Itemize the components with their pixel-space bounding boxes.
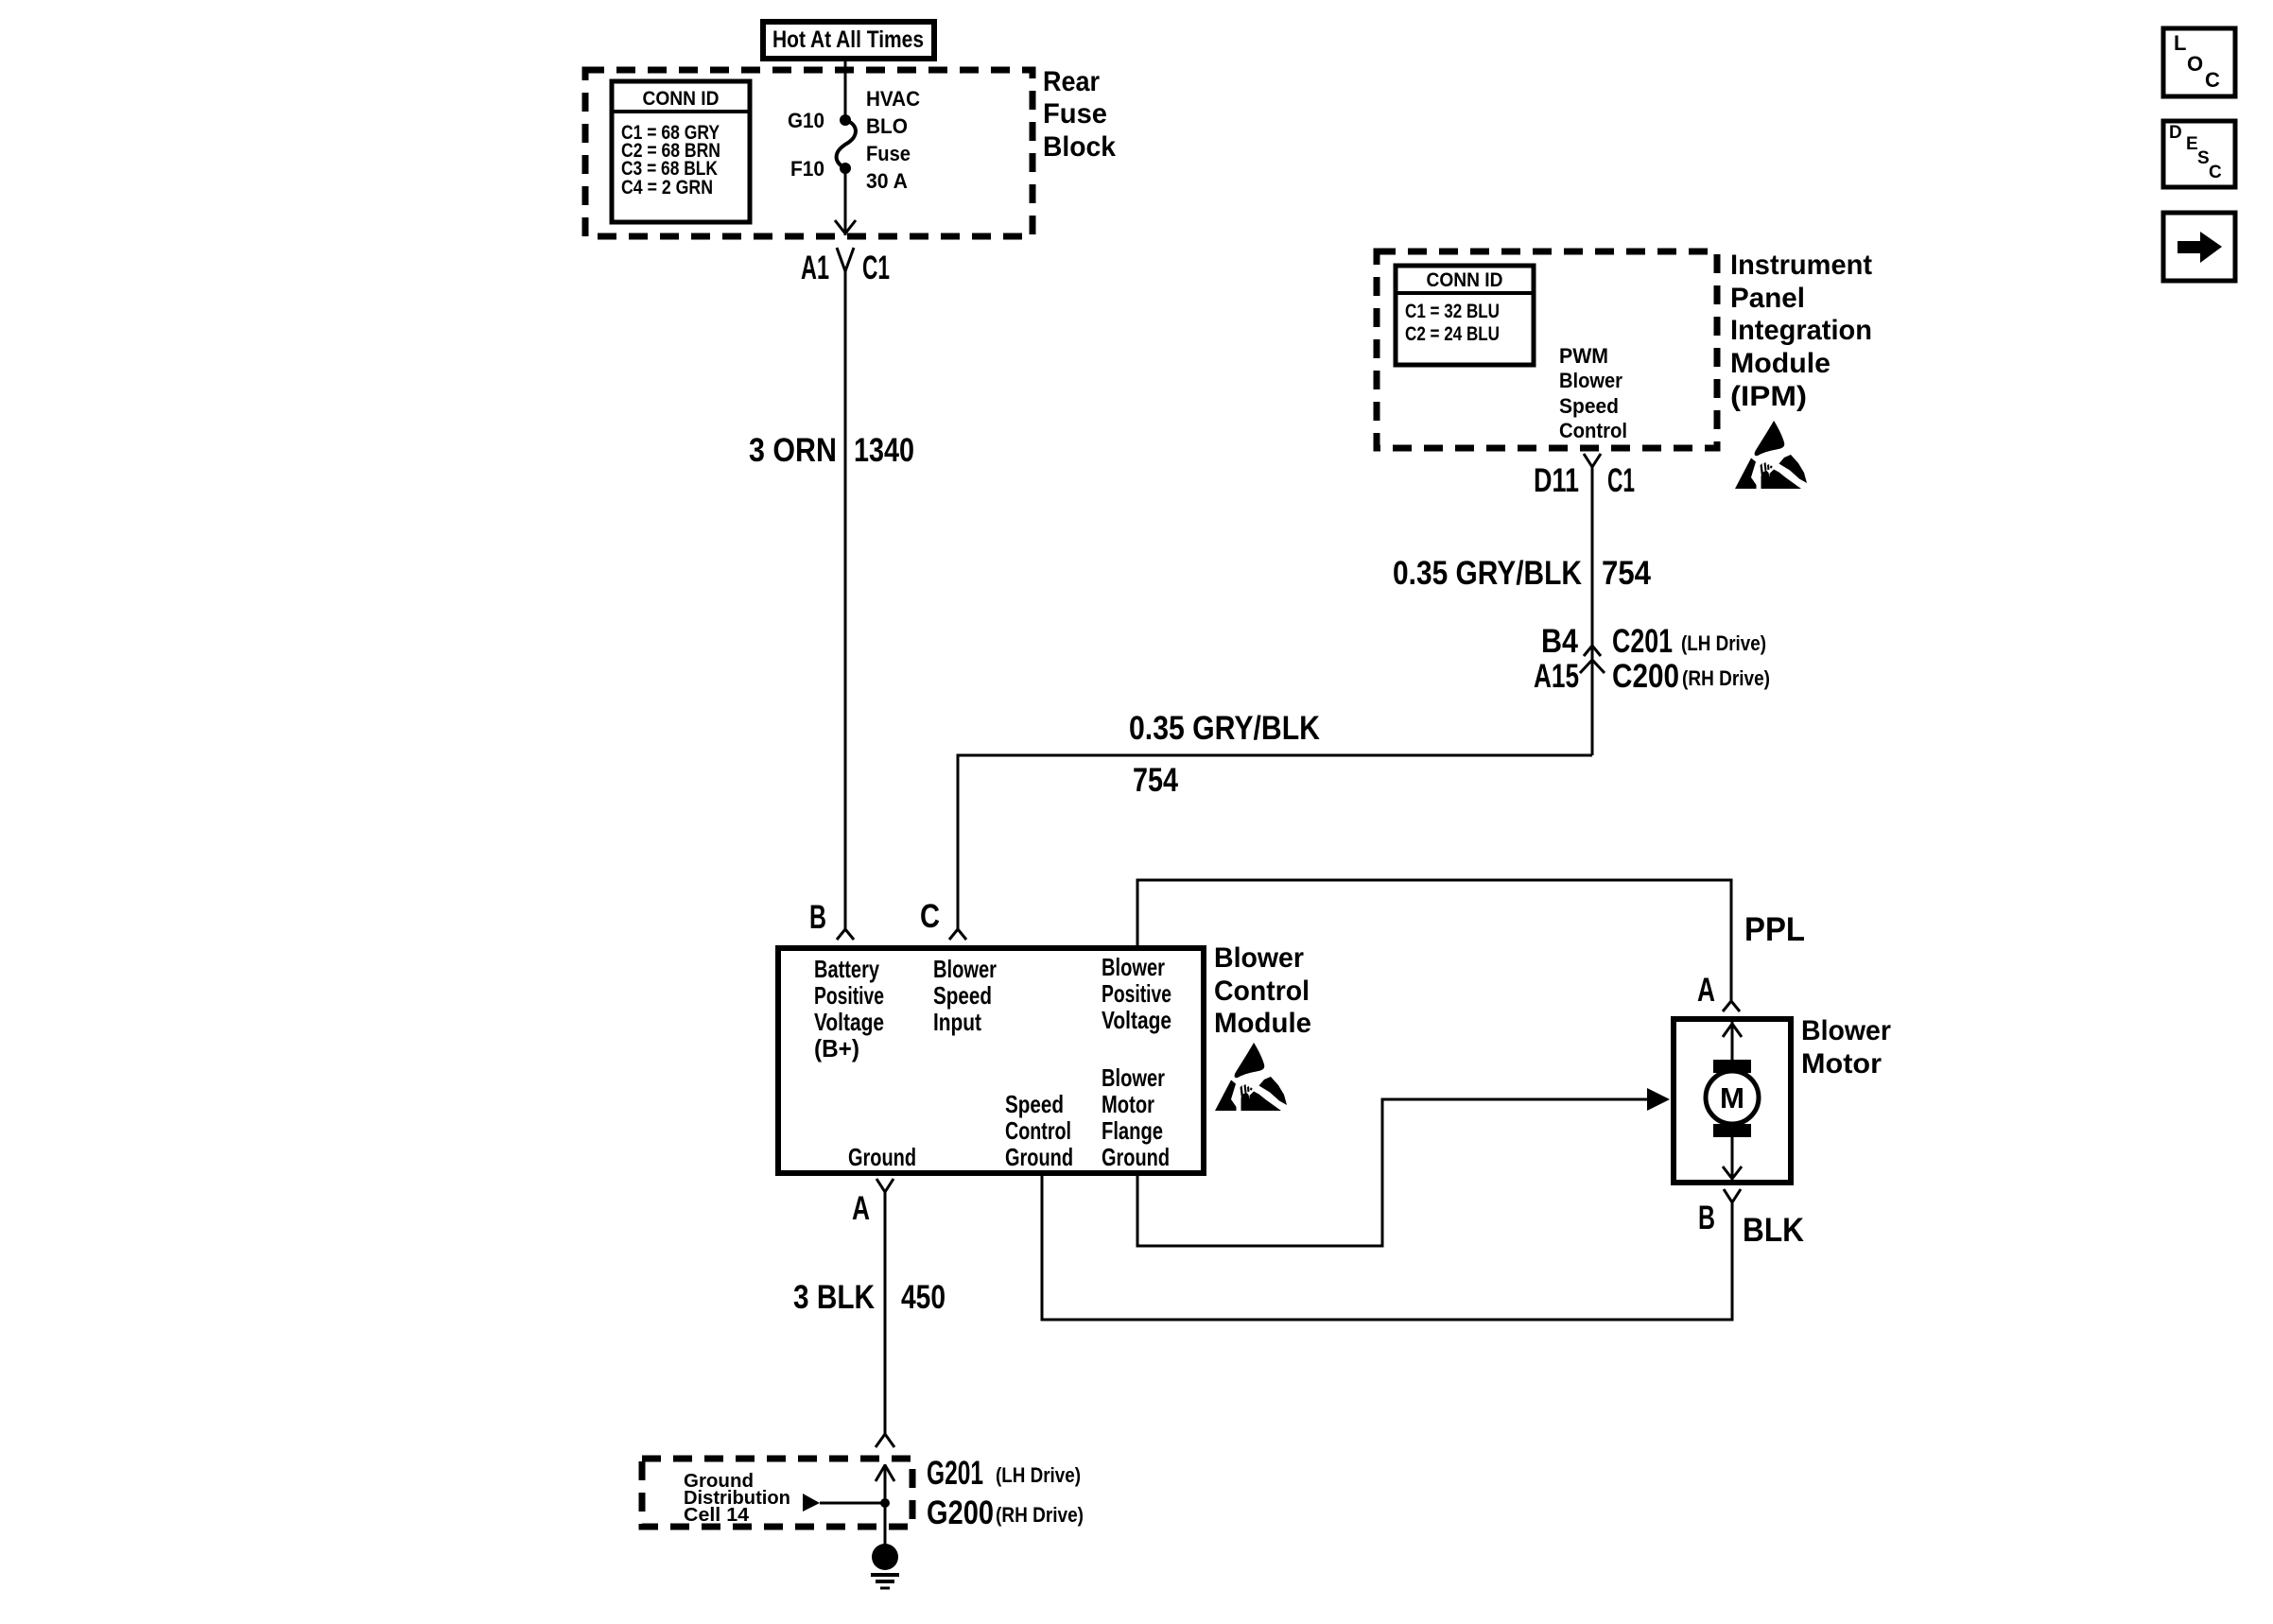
label Blower Control Module xyxy=(1214,942,1311,1039)
wire fuse to fuse block edge with arrow xyxy=(835,168,856,235)
svg-text:0.35 GRY/BLK: 0.35 GRY/BLK xyxy=(1129,710,1320,747)
svg-text:Blower: Blower xyxy=(1801,1015,1891,1046)
svg-text:S: S xyxy=(2197,148,2210,168)
connector B below motor (female Y) xyxy=(1724,1189,1741,1202)
svg-text:Integration: Integration xyxy=(1730,315,1872,346)
ground G201/G200 symbol xyxy=(871,1544,899,1588)
svg-text:O: O xyxy=(2187,52,2203,76)
svg-text:HVAC: HVAC xyxy=(866,87,920,111)
svg-text:Motor: Motor xyxy=(1102,1090,1154,1118)
svg-text:G10: G10 xyxy=(788,109,824,132)
svg-text:Rear: Rear xyxy=(1043,66,1100,97)
svg-text:Blower: Blower xyxy=(1559,369,1622,392)
svg-text:A15: A15 xyxy=(1534,658,1579,695)
label PWM Blower Speed Control xyxy=(1559,344,1627,442)
component Rear Fuse Block (dashed) xyxy=(585,70,1032,236)
pin label Blower Positive Voltage xyxy=(1102,953,1171,1034)
svg-text:G200: G200 xyxy=(927,1494,994,1531)
svg-text:(B+): (B+) xyxy=(814,1034,859,1063)
svg-text:Motor: Motor xyxy=(1801,1048,1882,1080)
ESD symbol (Blower Control Module) xyxy=(1215,1043,1287,1111)
svg-text:F10: F10 xyxy=(790,157,824,181)
svg-text:D: D xyxy=(2169,123,2182,143)
svg-text:0.35 GRY/BLK: 0.35 GRY/BLK xyxy=(1393,555,1582,592)
svg-text:(IPM): (IPM) xyxy=(1730,381,1807,412)
svg-text:450: 450 xyxy=(901,1279,946,1316)
wire from Hot At All Times to fuse xyxy=(844,59,847,120)
pin B terminal chevron at Blower Control Module xyxy=(837,929,854,940)
svg-text:Blower: Blower xyxy=(1214,942,1304,974)
svg-text:Module: Module xyxy=(1214,1008,1311,1039)
LOC box xyxy=(2163,28,2235,96)
svg-text:Battery: Battery xyxy=(814,955,879,983)
pin label Battery Positive Voltage (B+) xyxy=(814,955,884,1063)
svg-text:Positive: Positive xyxy=(814,981,884,1010)
connector D11/C1 (female Y) xyxy=(1584,454,1601,467)
label Rear Fuse Block xyxy=(1043,66,1116,163)
svg-text:Control: Control xyxy=(1214,976,1310,1007)
svg-text:C4 = 2 GRN: C4 = 2 GRN xyxy=(621,177,713,199)
svg-text:754: 754 xyxy=(1602,555,1651,592)
svg-text:Positive: Positive xyxy=(1102,979,1171,1008)
pin label Blower Motor Flange Ground xyxy=(1102,1063,1170,1171)
svg-text:B: B xyxy=(1698,1200,1715,1236)
svg-text:Fuse: Fuse xyxy=(1043,98,1107,130)
svg-text:Ground: Ground xyxy=(848,1143,916,1171)
svg-text:Blower: Blower xyxy=(1102,1063,1165,1092)
arrow into motor frame xyxy=(1647,1088,1670,1111)
arrow box (next page) xyxy=(2163,213,2235,281)
svg-text:Blower: Blower xyxy=(933,955,997,983)
svg-text:C201: C201 xyxy=(1612,623,1673,660)
svg-text:C: C xyxy=(2205,68,2220,92)
svg-text:B4: B4 xyxy=(1541,623,1578,660)
svg-text:Block: Block xyxy=(1043,131,1116,163)
table CONN ID (Rear Fuse Block) xyxy=(612,81,750,222)
connector chevron above ground block xyxy=(876,1434,894,1447)
wire flange ground with arrow into motor xyxy=(1137,1099,1649,1246)
wire BLK from motor B to speed control ground xyxy=(1042,1176,1732,1320)
svg-text:30 A: 30 A xyxy=(866,169,908,193)
svg-text:(RH Drive): (RH Drive) xyxy=(1682,666,1770,690)
svg-text:PWM: PWM xyxy=(1559,344,1608,368)
svg-text:(LH Drive): (LH Drive) xyxy=(996,1463,1081,1487)
svg-text:M: M xyxy=(1720,1081,1744,1114)
svg-text:C: C xyxy=(920,898,940,935)
svg-text:C2 = 24 BLU: C2 = 24 BLU xyxy=(1405,323,1500,345)
svg-text:Ground: Ground xyxy=(1102,1143,1170,1171)
svg-text:(RH Drive): (RH Drive) xyxy=(996,1503,1084,1527)
svg-text:Speed: Speed xyxy=(1005,1090,1064,1118)
arrow ground distribution xyxy=(803,1494,820,1512)
node Hot At All Times box xyxy=(763,22,934,59)
wire ground inside box with arrow xyxy=(876,1464,894,1545)
label Blower Motor xyxy=(1801,1015,1891,1080)
svg-text:Control: Control xyxy=(1559,419,1627,442)
svg-text:Cell 14: Cell 14 xyxy=(684,1505,750,1526)
node junction dot xyxy=(880,1498,890,1508)
svg-text:Ground: Ground xyxy=(1005,1143,1073,1171)
svg-text:Voltage: Voltage xyxy=(814,1008,884,1036)
svg-text:(LH Drive): (LH Drive) xyxy=(1681,631,1766,655)
wire 3 ORN 1340 (battery feed) xyxy=(844,271,847,930)
svg-text:B: B xyxy=(809,899,826,936)
svg-text:G201: G201 xyxy=(927,1455,983,1492)
svg-text:Flange: Flange xyxy=(1102,1116,1163,1145)
pin A chevron at Blower Motor xyxy=(1723,1001,1740,1011)
table CONN ID (IPM) xyxy=(1396,266,1534,365)
svg-text:Hot At All Times: Hot At All Times xyxy=(772,26,924,53)
component Instrument Panel Integration Module (dashed) xyxy=(1377,251,1717,448)
svg-text:C1: C1 xyxy=(862,250,890,286)
label Ground Distribution Cell 14 xyxy=(684,1471,790,1526)
connector A below module (female Y) xyxy=(876,1179,894,1192)
wire PPL (Blower Positive Voltage to motor A) xyxy=(1137,880,1731,1002)
svg-text:C: C xyxy=(2209,163,2222,182)
svg-text:A: A xyxy=(1697,972,1715,1009)
svg-text:Instrument: Instrument xyxy=(1730,250,1872,281)
motor M symbol xyxy=(1706,1022,1759,1180)
svg-text:3 BLK: 3 BLK xyxy=(793,1279,875,1316)
label HVAC BLO Fuse 30 A xyxy=(866,87,920,193)
wire to distribution arrow xyxy=(820,1502,885,1505)
pin label Blower Speed Input xyxy=(933,955,997,1036)
pin C terminal chevron xyxy=(949,929,966,940)
svg-text:CONN ID: CONN ID xyxy=(643,88,720,110)
wire 0.35 GRY/BLK 754 (PWM signal, vertical) xyxy=(1591,467,1594,755)
svg-text:Voltage: Voltage xyxy=(1102,1006,1171,1034)
svg-text:PPL: PPL xyxy=(1744,911,1805,948)
svg-text:1340: 1340 xyxy=(854,432,914,469)
connector C201/C200 inline chevrons xyxy=(1580,646,1605,673)
connector A1/C1 (female Y) xyxy=(837,248,854,271)
svg-text:Speed: Speed xyxy=(1559,394,1619,418)
wire 0.35 GRY/BLK 754 (horizontal to module pin C) xyxy=(958,755,1592,930)
svg-text:CONN ID: CONN ID xyxy=(1427,269,1503,291)
svg-text:Input: Input xyxy=(933,1008,981,1036)
DESC box xyxy=(2163,121,2235,187)
svg-text:C1 = 32 BLU: C1 = 32 BLU xyxy=(1405,301,1500,322)
svg-text:A: A xyxy=(852,1190,870,1227)
svg-text:E: E xyxy=(2186,134,2198,154)
svg-text:Control: Control xyxy=(1005,1116,1071,1145)
svg-text:Blower: Blower xyxy=(1102,953,1165,981)
svg-text:D11: D11 xyxy=(1534,462,1579,499)
svg-text:Module: Module xyxy=(1730,348,1831,379)
ESD symbol (IPM) xyxy=(1735,421,1807,489)
svg-text:Panel: Panel xyxy=(1730,283,1805,314)
svg-text:Speed: Speed xyxy=(933,981,992,1010)
svg-text:Fuse: Fuse xyxy=(866,142,911,165)
svg-text:754: 754 xyxy=(1133,762,1178,799)
fuse HVAC BLO Fuse 30 A xyxy=(837,114,856,174)
pin label Speed Control Ground xyxy=(1005,1090,1073,1171)
svg-text:C200: C200 xyxy=(1612,658,1679,695)
component Ground Distribution Cell 14 (dashed) xyxy=(642,1459,912,1527)
svg-text:BLK: BLK xyxy=(1743,1212,1804,1249)
component Blower Motor box xyxy=(1674,1019,1791,1183)
label Instrument Panel Integration Module (IPM) xyxy=(1730,250,1872,412)
svg-text:BLO: BLO xyxy=(866,114,908,138)
wire 3 BLK 450 (ground) xyxy=(884,1192,887,1434)
component Blower Control Module box xyxy=(778,948,1204,1173)
svg-text:C1: C1 xyxy=(1607,462,1635,499)
svg-text:3 ORN: 3 ORN xyxy=(749,432,837,469)
svg-text:L: L xyxy=(2174,31,2186,55)
svg-text:A1: A1 xyxy=(801,250,829,286)
